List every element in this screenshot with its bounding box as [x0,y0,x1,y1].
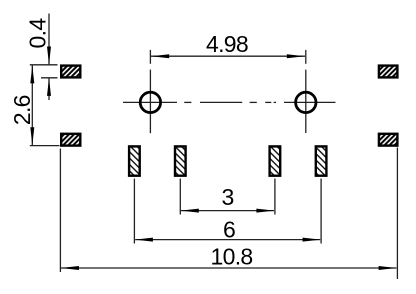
centerline vertical of right circle [305,70,307,133]
centerline horizontal of left circle [123,101,177,103]
arrowhead 6 right [303,238,321,242]
arrowhead 6 left [135,238,153,242]
svg-text:6: 6 [223,216,235,242]
svg-text:10.8: 10.8 [211,244,253,270]
extension line: bottom of lower-left pad [30,145,60,147]
tick line: bottom of upper-left pad (0.4 dim) [41,77,58,79]
arrowhead 3 right [256,209,274,213]
dimension line 6 [135,239,320,241]
arrowhead 4.98 left [151,54,169,58]
dimension line 2.6 [31,65,33,145]
pad bottom-left [61,134,80,146]
extension line below lower-right pad (10.8 dim) [396,148,398,280]
hole circle right [296,92,316,112]
arrowhead 4.98 right [287,54,305,58]
extension line above right circle [305,50,307,64]
dimension line 0.4 lower segment [48,78,50,100]
dimension line 0.4 upper segment [48,14,50,65]
arrowhead 10.8 right [379,266,397,270]
extension line below pad V4 (6 dim) [320,179,322,244]
dash-dot centerline between circles [184,101,191,103]
extension line below pad V1 (6 dim) [133,179,135,244]
extension line below lower-left pad (10.8 dim) [59,149,61,273]
dimension line 4.98 [151,55,305,57]
extension line above left circle [149,50,151,64]
pad V3 [270,146,281,175]
pad top-right [379,66,398,78]
svg-text:3: 3 [221,184,233,210]
pad top-left [61,66,80,78]
arrowhead 0.4 bottom (up) [47,78,51,96]
centerline vertical of left circle [149,70,151,134]
arrowhead 2.6 bottom (down) [30,127,34,145]
arrowhead 2.6 top (up) [30,65,34,83]
dimension line 3 [181,210,274,212]
svg-text:0.4: 0.4 [25,18,51,49]
extension line: top of upper-left pad [30,64,58,66]
pad V2 [175,146,186,175]
centerline horizontal of right circle [284,101,336,103]
arrowhead 0.4 top (down) [47,47,51,65]
dimension line 10.8 [61,267,397,269]
svg-text:4.98: 4.98 [206,31,248,57]
pad bottom-right [379,134,398,146]
pad V4 [316,146,327,175]
svg-text:2.6: 2.6 [9,95,35,125]
extension line below pad V3 (3 dim) [274,179,276,215]
arrowhead 10.8 left [61,266,79,270]
pad V1 [129,146,140,175]
hole circle left [140,92,160,112]
extension line below pad V2 (3 dim) [179,179,181,215]
arrowhead 3 left [181,209,199,213]
